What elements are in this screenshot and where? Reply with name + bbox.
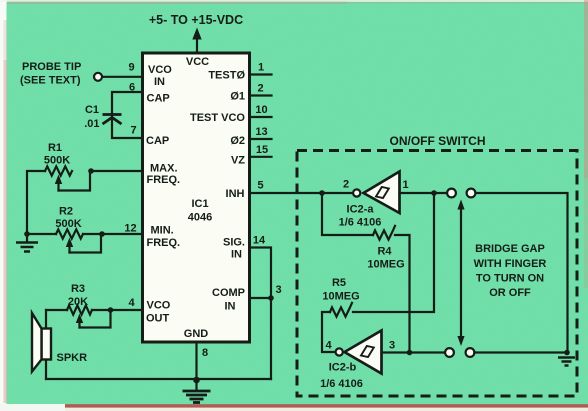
wire R4 branch [322,193,373,235]
svg-text:MIN.: MIN. [151,225,174,237]
node bottom gap contact right [466,348,475,357]
wire IC2-b output to R5 [322,312,336,352]
svg-text:OR OFF: OR OFF [489,287,531,299]
node R2 junction [99,231,105,237]
svg-text:R3: R3 [71,283,85,295]
svg-text:FREQ.: FREQ. [147,237,181,249]
wire IC2-a output to gap [400,192,447,194]
svg-text:IN: IN [225,301,236,313]
ground center [195,380,197,390]
pin 13 stub O2 [250,138,272,140]
svg-text:R1: R1 [48,142,62,154]
svg-text:CAP: CAP [147,93,170,105]
svg-text:TESTØ: TESTØ [208,70,245,82]
node R1 junction [88,168,94,174]
svg-text:3: 3 [389,340,395,352]
svg-text:2: 2 [343,179,349,191]
capacitor C1 [103,113,122,116]
svg-text:OUT: OUT [146,313,170,325]
svg-text:IC2-a: IC2-a [347,204,375,216]
wire probe to pin 9 [102,76,142,78]
wire VCC supply [196,38,198,53]
node ground left junction [24,231,30,237]
svg-text:Ø2: Ø2 [230,135,245,147]
wire top gap to ground rail [476,193,568,353]
node top gap contact right [467,189,476,198]
wire R1 to MAX FREQ [91,170,143,172]
svg-text:R2: R2 [59,206,73,218]
svg-text:IN: IN [154,76,165,88]
svg-text:1/6 4106: 1/6 4106 [320,378,363,390]
svg-text:12: 12 [124,223,136,235]
wire R4 to pin 3 node [395,235,410,353]
svg-text:FREQ.: FREQ. [147,174,181,186]
svg-text:4046: 4046 [188,212,212,224]
svg-text:1: 1 [258,62,264,74]
speaker SPKR [45,310,47,379]
resistor R1 [45,166,72,175]
svg-text:WITH FINGER: WITH FINGER [474,258,547,270]
svg-text:4: 4 [128,297,135,309]
svg-text:TO TURN ON: TO TURN ON [476,273,544,285]
svg-text:10MEG: 10MEG [367,259,404,271]
scan margin white left [0,0,7,411]
resistor R5 [330,303,352,317]
svg-text:7: 7 [130,125,136,137]
node probe tip terminal [94,73,102,81]
svg-text:MAX.: MAX. [150,163,178,175]
node bottom junction [193,377,200,384]
wire pin6 to pin7 loop [112,92,143,138]
svg-text:10MEG: 10MEG [322,291,359,303]
node bottom gap contact left [445,348,454,357]
svg-text:C1: C1 [85,104,99,116]
wire ground to R2 [27,233,56,235]
svg-text:VCO: VCO [148,64,172,76]
svg-text:14: 14 [253,235,266,247]
svg-text:3: 3 [276,284,282,296]
op-amp IC2-b inverter [345,331,382,374]
ON/OFF SWITCH dashed enclosure [297,151,577,397]
wire pin 3 [250,297,272,299]
svg-text:INH: INH [226,188,245,200]
svg-text:R4: R4 [377,246,392,258]
svg-text:.01: .01 [84,118,99,130]
node R4/pin3 junction [407,350,413,356]
wire bottom gap to ground rail [474,351,567,353]
svg-text:BRIDGE GAP: BRIDGE GAP [475,243,545,255]
svg-text:GND: GND [184,328,209,340]
wire bottom ground bus [46,378,271,380]
svg-text:1/6 4106: 1/6 4106 [339,217,382,229]
svg-text:PROBE TIP: PROBE TIP [22,61,81,73]
resistor R4 [373,226,395,240]
svg-text:IN: IN [231,249,242,261]
svg-text:1: 1 [402,179,408,191]
svg-text:9: 9 [128,62,134,74]
node R3 junction [108,307,114,313]
svg-text:Ø1: Ø1 [230,91,245,103]
node pin1 feedback junction [431,190,437,196]
bridge gap arrow [460,207,462,339]
svg-text:VZ: VZ [231,155,245,167]
svg-text:VCO: VCO [147,300,171,312]
svg-text:500K: 500K [55,218,81,230]
node ground rail junction [564,350,570,356]
svg-text:10: 10 [255,104,267,116]
wire R5 feedback to pin 1 [353,193,434,312]
resistor R3 [67,305,92,314]
svg-text:TEST VCO: TEST VCO [190,112,245,124]
svg-text:13: 13 [255,126,267,138]
node pin3/pin14 junction [268,295,274,301]
wire pin 14 down to bus [250,248,272,380]
R3 wiper arm [78,320,80,328]
svg-text:15: 15 [256,144,268,156]
wire R3 to pin 4 [92,309,143,311]
wire speaker to R3 [46,309,67,311]
svg-text:8: 8 [202,347,208,359]
ground right [558,358,575,366]
node INH junction [319,190,325,196]
pin 1 stub TESTO [250,73,272,75]
svg-text:+5- TO +15-VDC: +5- TO +15-VDC [149,13,243,27]
svg-text:CAP: CAP [146,135,169,147]
svg-text:R5: R5 [332,277,346,289]
op-amp IC2-a inverter [364,172,400,214]
R1 wiper arm [57,181,59,191]
svg-text:ON/OFF SWITCH: ON/OFF SWITCH [390,134,486,148]
resistor R2 [56,229,83,238]
pin 15 stub VZ [250,156,272,158]
svg-text:COMP: COMP [212,287,245,299]
svg-text:5: 5 [257,180,263,192]
wire INH to IC2-a [250,192,353,194]
wire pin 8 [195,342,197,379]
svg-text:6: 6 [129,82,135,94]
svg-text:SIG.: SIG. [223,237,245,249]
pin 2 stub O1 [250,94,272,96]
svg-text:VCC: VCC [186,56,209,68]
svg-text:SPKR: SPKR [57,352,88,364]
wire R2 to pin 12 [83,233,143,235]
wire IC2-b input to bottom gap [382,351,445,353]
R2 wiper arm [68,244,70,253]
pin 10 stub TEST VCO [250,116,272,118]
svg-text:500K: 500K [44,155,70,167]
wire R1 left leg [27,171,45,234]
IC1 4046 body [143,53,250,342]
svg-text:IC2-b: IC2-b [329,362,357,374]
svg-text:IC1: IC1 [191,198,208,210]
svg-text:4: 4 [325,340,332,352]
svg-text:2: 2 [257,83,263,95]
svg-text:(SEE TEXT): (SEE TEXT) [20,75,81,87]
arrowhead power up [192,28,201,40]
ground left [26,234,28,242]
node top gap contact left [447,189,456,198]
